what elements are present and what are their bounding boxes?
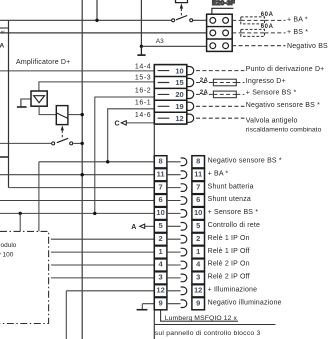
switch S-bottom xyxy=(0,142,51,144)
wire 14-4 xyxy=(0,70,154,72)
relay control arrow xyxy=(61,125,64,130)
svg-text:8: 8 xyxy=(159,157,163,166)
svg-text:2: 2 xyxy=(196,234,200,243)
wire row3 xyxy=(51,277,154,279)
bus below connector xyxy=(153,124,155,339)
svg-text:6: 6 xyxy=(196,195,200,204)
connector X2 right column xyxy=(192,156,205,310)
op-amp U1 Amplificatore xyxy=(31,91,47,106)
svg-text:19: 19 xyxy=(175,102,183,111)
svg-text:sul pannello di controllo bloc: sul pannello di controllo blocco 3 xyxy=(155,330,261,337)
svg-text:6: 6 xyxy=(159,195,163,204)
wire negativo vertical x141 xyxy=(140,0,142,46)
svg-text:Negativo sensore BS *: Negativo sensore BS * xyxy=(246,102,320,109)
pin numbers X2 right xyxy=(194,157,202,308)
pin circles E20 xyxy=(210,18,216,24)
connector X1 upper body xyxy=(154,65,187,125)
wire row7 xyxy=(9,187,155,189)
wire row4 xyxy=(51,264,154,266)
svg-text:15: 15 xyxy=(175,78,183,87)
svg-text:10: 10 xyxy=(175,66,183,75)
svg-text:9: 9 xyxy=(159,298,163,307)
svg-text:5: 5 xyxy=(159,221,163,230)
svg-text:Controllo di rete: Controllo di rete xyxy=(208,222,260,229)
socket arcs X1 xyxy=(187,67,193,75)
svg-text:Relè 1 IP Off: Relè 1 IP Off xyxy=(208,248,250,255)
svg-text:60A: 60A xyxy=(261,12,274,18)
svg-text:2: 2 xyxy=(159,234,163,243)
svg-text:14-6: 14-6 xyxy=(135,112,151,119)
svg-text:Negativo BS: Negativo BS xyxy=(287,43,328,50)
label bracket lumberg xyxy=(161,310,238,321)
svg-text:Negativo illuminazione: Negativo illuminazione xyxy=(208,299,282,306)
svg-text:60A: 60A xyxy=(261,24,274,30)
ground chassis near E20 xyxy=(140,46,142,54)
wire 15-3 xyxy=(39,82,154,91)
svg-text:16-2: 16-2 xyxy=(135,87,151,94)
wire vertical bus x82 xyxy=(81,0,83,339)
svg-text:Shunt batteria: Shunt batteria xyxy=(208,183,254,190)
wire H3 to E20 row3 xyxy=(141,45,206,47)
svg-text:16-1: 16-1 xyxy=(135,99,151,106)
svg-text:A: A xyxy=(131,224,136,231)
connector X2 left column xyxy=(154,156,167,310)
pin stubs X1 xyxy=(158,71,170,119)
svg-text:Relè 1 IP On: Relè 1 IP On xyxy=(208,235,250,242)
fuse F2 60A xyxy=(241,29,265,36)
svg-text:+ BS *: + BS * xyxy=(287,29,308,36)
svg-text:P 100: P 100 xyxy=(0,252,14,259)
svg-text:C: C xyxy=(115,121,120,128)
wire relay to bus xyxy=(68,114,82,116)
svg-text:Relè 2 IP Off: Relè 2 IP Off xyxy=(208,274,250,281)
leader E20-3F xyxy=(212,8,234,14)
wire row11 xyxy=(0,174,154,176)
frame tick xyxy=(0,156,9,158)
node junction x97 on H1 xyxy=(96,0,98,20)
svg-text:+ Sensore BS *: + Sensore BS * xyxy=(208,209,259,216)
ground amp xyxy=(21,99,31,107)
wire row9 + ground xyxy=(142,304,154,310)
wire H1 top feed xyxy=(0,19,207,21)
svg-text:9: 9 xyxy=(196,298,200,307)
svg-text:+ Sensore BS *: + Sensore BS * xyxy=(246,90,297,97)
svg-text:A3: A3 xyxy=(156,38,164,45)
wire row6 xyxy=(0,200,154,202)
svg-text:odulo: odulo xyxy=(1,242,17,249)
svg-text:Relè 2 IP On: Relè 2 IP On xyxy=(208,261,250,268)
frame cell line xyxy=(0,27,9,29)
svg-text:14-4: 14-4 xyxy=(135,63,151,70)
svg-text:2A: 2A xyxy=(200,90,209,96)
wire H2 to E20 row2 xyxy=(0,32,207,34)
wire dashed pin10 xyxy=(196,70,244,72)
wire dashed to +BA xyxy=(232,19,285,21)
row labels X2 xyxy=(208,158,282,307)
label overline location xyxy=(154,324,275,326)
svg-text:12: 12 xyxy=(156,286,164,295)
wires and socket arcs X2 xyxy=(167,158,187,308)
svg-text:8: 8 xyxy=(196,157,200,166)
wire row10 xyxy=(0,212,154,214)
wire dashed to +BS xyxy=(232,32,285,34)
wire 16-1 xyxy=(108,109,155,162)
svg-text:2A: 2A xyxy=(200,78,209,84)
connector E20-3F body xyxy=(207,14,233,51)
svg-text:1: 1 xyxy=(159,247,163,256)
wire dashed pin20 + fuse 2A xyxy=(196,93,244,95)
wire amp to relay xyxy=(39,106,56,114)
svg-text:1: 1 xyxy=(196,247,200,256)
actuator box top (cut) xyxy=(176,0,188,3)
svg-text:Negativo sensore BS *: Negativo sensore BS * xyxy=(208,158,282,165)
svg-text:10: 10 xyxy=(194,208,202,217)
svg-text:5: 5 xyxy=(196,221,200,230)
frame edge left xyxy=(8,20,10,187)
svg-text:10: 10 xyxy=(156,208,164,217)
svg-text:+ Illuminazione: + Illuminazione xyxy=(208,287,258,294)
wire dashed pin12 xyxy=(196,117,244,119)
wire row2 xyxy=(51,238,154,240)
node A off-page xyxy=(145,225,155,227)
switch S-top xyxy=(172,19,175,22)
svg-text:Ingresso D+: Ingresso D+ xyxy=(246,78,286,85)
svg-text:Valvola antigelo: Valvola antigelo xyxy=(246,117,298,124)
svg-text:riscaldamento combinato: riscaldamento combinato xyxy=(246,126,322,133)
svg-text:3: 3 xyxy=(196,273,200,282)
svg-text:+ BA *: + BA * xyxy=(208,170,229,177)
wire dashed pin15 + fuse 2A xyxy=(196,82,244,84)
svg-text:Shunt utenza: Shunt utenza xyxy=(208,196,251,203)
wire dashed Negativo BS xyxy=(232,45,285,47)
svg-text:12: 12 xyxy=(194,286,202,295)
wire dashed pin19 xyxy=(196,105,244,107)
pin numbers X2 left xyxy=(156,157,164,308)
svg-text:Lumberg MSFQIO 12 x: Lumberg MSFQIO 12 x xyxy=(165,315,238,322)
svg-text:+ BA *: + BA * xyxy=(287,16,308,23)
svg-text:7: 7 xyxy=(159,182,163,191)
svg-text:15-3: 15-3 xyxy=(135,75,151,82)
arrow into actuator xyxy=(180,3,183,8)
svg-text:E20-3F: E20-3F xyxy=(212,0,235,7)
svg-text:20: 20 xyxy=(175,90,183,99)
wire row12 xyxy=(66,291,154,339)
relay K1 xyxy=(56,106,68,125)
node C off-page xyxy=(126,122,154,124)
wire 16-2 xyxy=(95,97,155,213)
wire row1 xyxy=(51,251,154,253)
svg-text:Amplificatore D+: Amplificatore D+ xyxy=(16,59,70,66)
panel box dash-dot xyxy=(0,231,49,323)
fuse F1 60A xyxy=(241,17,265,24)
svg-text:3: 3 xyxy=(159,273,163,282)
svg-text:A: A xyxy=(0,43,5,50)
svg-text:7: 7 xyxy=(196,182,200,191)
wire row8 xyxy=(39,162,154,232)
svg-text:12: 12 xyxy=(175,114,183,123)
svg-text:11: 11 xyxy=(194,169,202,178)
svg-text:11: 11 xyxy=(157,169,165,178)
svg-text:Punto di derivazione D+: Punto di derivazione D+ xyxy=(246,66,325,73)
